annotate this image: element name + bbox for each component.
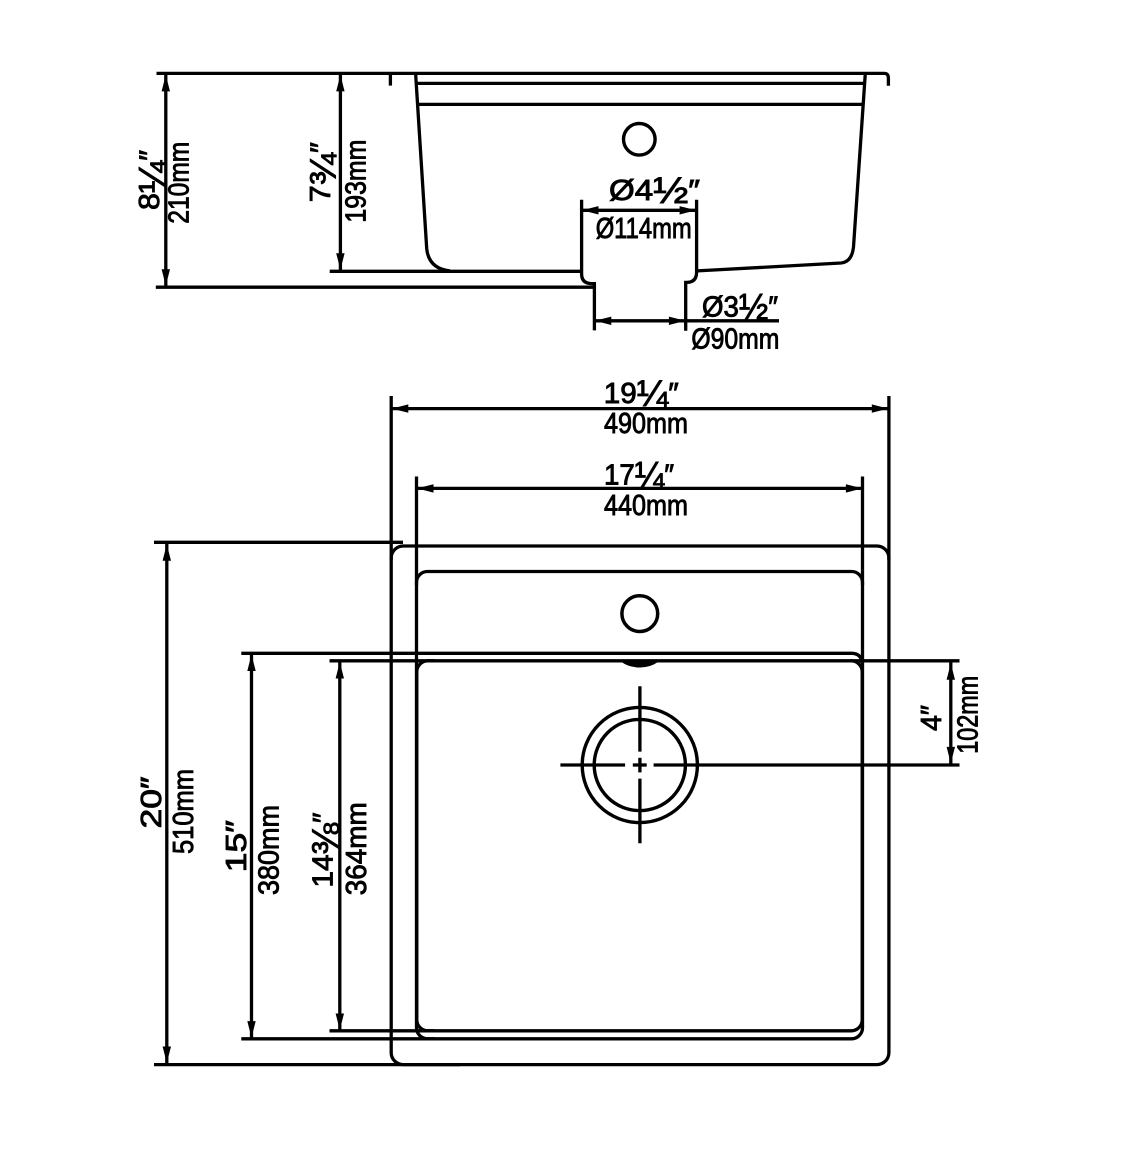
svg-text:510mm: 510mm [168,769,200,854]
svg-text:380mm: 380mm [254,805,286,895]
svg-text:14⅜″: 14⅜″ [305,813,346,888]
svg-text:Ø90mm: Ø90mm [691,324,779,356]
svg-text:20″: 20″ [136,777,168,829]
svg-text:102mm: 102mm [952,676,984,754]
svg-text:210mm: 210mm [163,142,195,224]
svg-text:7¾″: 7¾″ [302,142,343,202]
svg-text:440mm: 440mm [604,490,688,522]
svg-text:Ø4½″: Ø4½″ [609,170,700,211]
svg-text:490mm: 490mm [604,408,688,440]
svg-text:193mm: 193mm [340,140,372,223]
svg-text:364mm: 364mm [341,802,373,895]
svg-text:Ø114mm: Ø114mm [596,213,692,245]
svg-text:Ø3½″: Ø3½″ [702,287,778,328]
svg-text:15″: 15″ [221,820,253,872]
svg-text:4″: 4″ [916,705,948,731]
